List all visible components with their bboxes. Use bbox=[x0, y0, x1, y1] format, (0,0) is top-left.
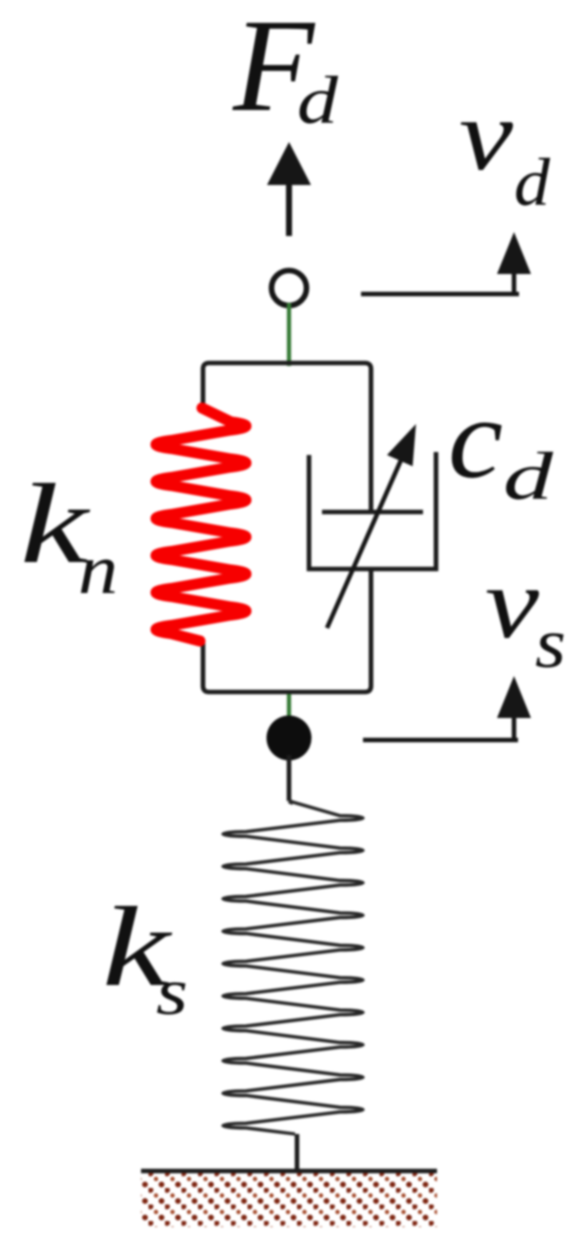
wire: dot to spring ks bbox=[287, 755, 292, 801]
wire: green link frame to node dot bbox=[287, 694, 291, 722]
svg-text:v: v bbox=[459, 79, 514, 192]
velocity arrow v_d bbox=[361, 232, 531, 296]
svg-text:d: d bbox=[297, 62, 339, 138]
label k_n bbox=[20, 460, 118, 609]
spring k_n (red coil) bbox=[156, 408, 246, 641]
node: open circle terminal bbox=[272, 271, 307, 306]
wire: elbow into spring bbox=[289, 801, 293, 803]
label c_d bbox=[448, 375, 554, 514]
ground line bbox=[141, 1169, 437, 1174]
svg-text:s: s bbox=[156, 955, 188, 1029]
svg-text:d: d bbox=[503, 438, 554, 514]
damper c_d cup bbox=[309, 452, 436, 569]
svg-text:s: s bbox=[535, 605, 566, 683]
wire: frame top + left stub + right rod to piston bbox=[203, 363, 371, 512]
label v_d bbox=[459, 79, 551, 220]
svg-text:n: n bbox=[78, 531, 118, 609]
variable arrow through damper bbox=[327, 424, 416, 628]
label v_s bbox=[485, 547, 566, 683]
svg-text:c: c bbox=[448, 375, 503, 503]
label k_s bbox=[102, 883, 188, 1029]
node: filled junction dot bbox=[267, 716, 312, 761]
wire: spring to ground bbox=[295, 1134, 300, 1171]
wire: frame bottom + left stub + right rod from cup bbox=[203, 569, 371, 692]
force arrow Fd head bbox=[267, 142, 311, 185]
svg-text:d: d bbox=[514, 144, 551, 220]
wire: green link circle to frame bbox=[287, 303, 291, 366]
label F_d bbox=[232, 0, 339, 139]
velocity arrow v_s bbox=[363, 676, 531, 742]
force arrow Fd shaft bbox=[286, 182, 292, 236]
svg-text:v: v bbox=[485, 547, 540, 660]
damper c_d piston line bbox=[322, 510, 423, 515]
spring k_s (black coil) bbox=[223, 801, 363, 1134]
